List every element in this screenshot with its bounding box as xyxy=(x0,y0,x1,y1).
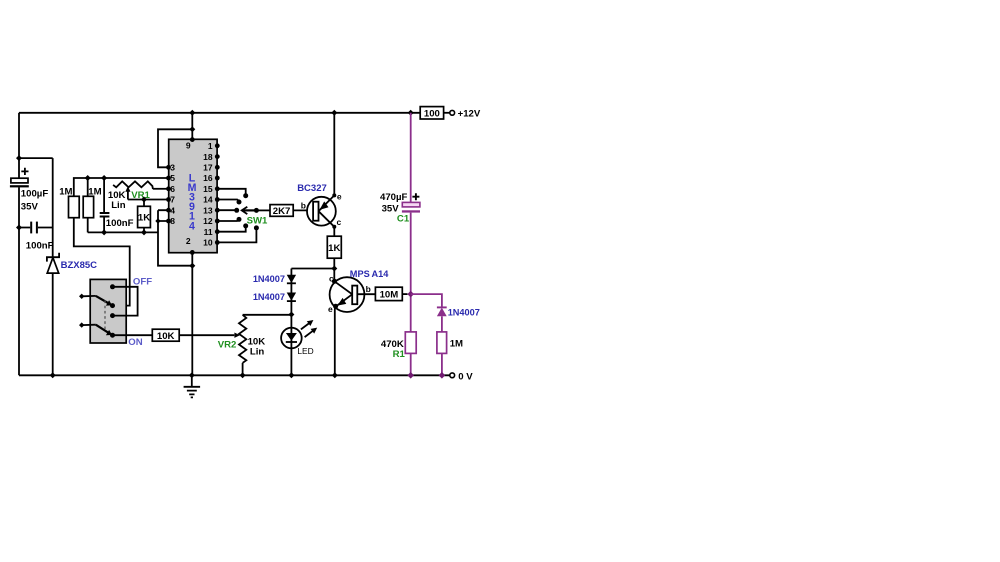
svg-text:13: 13 xyxy=(203,205,213,215)
svg-text:0 V: 0 V xyxy=(458,371,473,382)
wire zener branch horizontal xyxy=(19,157,53,159)
junction bottom rail / zener xyxy=(50,372,56,378)
wire ON contact to 10K xyxy=(113,334,153,336)
resistor 1M purple xyxy=(437,332,463,354)
svg-text:1K: 1K xyxy=(328,243,340,254)
svg-text:4: 4 xyxy=(189,220,195,232)
wire pin 9 from top rail xyxy=(191,113,193,140)
svg-text:MPS A14: MPS A14 xyxy=(350,269,389,279)
switch lever upper xyxy=(96,296,112,306)
svg-text:LED: LED xyxy=(297,346,313,356)
LED arrow upper xyxy=(301,320,314,329)
resistor 2K7 xyxy=(270,205,293,217)
wire 1M second bottom xyxy=(87,218,89,233)
svg-text:2: 2 xyxy=(186,236,191,246)
node BC327 collector bend xyxy=(332,225,336,229)
svg-text:10: 10 xyxy=(203,238,213,248)
pin 16 stub xyxy=(203,173,220,183)
svg-text:35V: 35V xyxy=(21,201,39,212)
switch contact lower unused xyxy=(110,313,115,318)
svg-text:15: 15 xyxy=(203,184,213,194)
svg-text:4: 4 xyxy=(170,205,175,215)
svg-text:b: b xyxy=(366,284,371,294)
svg-text:VR2: VR2 xyxy=(218,340,237,351)
switch contact upper pole xyxy=(110,303,115,308)
junction bottom rail / VR2 xyxy=(240,372,246,378)
svg-text:11: 11 xyxy=(204,227,213,237)
switch SW1 selector arrow xyxy=(242,207,255,214)
node selector contact 13 xyxy=(234,208,239,213)
svg-text:1N4007: 1N4007 xyxy=(253,274,285,284)
pin 13 stub xyxy=(203,205,220,215)
node selector contact 15 xyxy=(243,193,248,198)
node MPSA14 emitter xyxy=(333,304,338,309)
pin 1 stub xyxy=(208,141,220,151)
wire BC327 emitter to top rail xyxy=(333,113,335,196)
svg-text:1M: 1M xyxy=(450,338,463,349)
pin 4 stub xyxy=(166,205,175,215)
wire left vertical upper xyxy=(18,113,20,178)
svg-text:100: 100 xyxy=(424,108,440,119)
pin 8 stub xyxy=(166,216,175,226)
svg-text:Lin: Lin xyxy=(111,200,126,211)
resistor 1M first xyxy=(59,187,79,218)
node BC327 emitter bend xyxy=(332,193,336,197)
wire 100 to +12V terminal xyxy=(444,112,450,114)
diode D2 1N4007 xyxy=(253,292,296,302)
wire pin11 to selector contact xyxy=(218,228,246,232)
svg-text:2K7: 2K7 xyxy=(273,206,291,217)
capacitor 100nF second xyxy=(100,178,134,232)
LED arrow lower xyxy=(305,328,318,338)
wire purple 470K to rail xyxy=(410,353,412,375)
junction pin2 wire / pin4 pin8 net xyxy=(189,263,195,269)
junction pin5 net / 100nF xyxy=(101,175,107,181)
resistor R1 470K purple xyxy=(381,332,416,360)
node selector contact 12 xyxy=(237,217,242,222)
svg-text:BC327: BC327 xyxy=(297,183,327,194)
pin 11 stub xyxy=(204,227,220,237)
svg-text:Lin: Lin xyxy=(250,346,265,357)
transistor Q2 MPSA14 xyxy=(328,269,389,314)
junction ground net / 100nF second xyxy=(101,229,107,235)
resistor 1M second xyxy=(83,187,101,218)
node selector contact 14 xyxy=(237,200,242,205)
diode D1 1N4007 xyxy=(253,274,296,284)
junction diode chain / VR2 top xyxy=(288,312,294,318)
potentiometer VR1 10K Lin xyxy=(108,181,168,210)
pin 6 stub xyxy=(166,184,175,194)
wire purple C1 net lower xyxy=(410,213,412,332)
switch lever lower xyxy=(96,325,112,336)
wire purple diode to 1M xyxy=(441,316,443,332)
wire pivot to 2K7 xyxy=(256,209,270,211)
svg-text:100µF: 100µF xyxy=(21,189,49,200)
switch gang dashed link xyxy=(104,301,106,330)
svg-text:5: 5 xyxy=(170,173,175,183)
node 0V terminal xyxy=(450,371,473,382)
svg-text:9: 9 xyxy=(186,141,191,151)
svg-text:b: b xyxy=(301,201,306,211)
wire MPSA14 base to 10M xyxy=(357,293,375,295)
svg-text:R1: R1 xyxy=(393,349,406,360)
wire BC327 collector to 1K xyxy=(333,227,335,236)
wire pin 2 to bottom rail xyxy=(191,253,193,376)
junction left vertical / 100nF xyxy=(16,225,22,231)
svg-text:10K: 10K xyxy=(157,331,175,342)
node selector contact 11 xyxy=(243,223,248,228)
wire pins 4 8 ground net horizontal xyxy=(88,231,158,233)
junction pin5 net / 1M second xyxy=(85,175,91,181)
wire VR2 top to LED net xyxy=(243,314,292,316)
svg-text:16: 16 xyxy=(203,173,213,183)
wire pin14 to selector contact xyxy=(218,200,239,201)
wire pin12 to selector contact xyxy=(218,220,239,221)
junction purple rail 1M xyxy=(439,372,446,379)
svg-text:SW1: SW1 xyxy=(247,215,268,226)
node selector contact 10 xyxy=(254,225,259,230)
junction diode chain top xyxy=(331,266,337,272)
zener diode BZX85C xyxy=(47,253,97,273)
svg-text:470K: 470K xyxy=(381,339,404,350)
junction pin7 net / 1K xyxy=(141,197,147,203)
wire 1M first bottom to switch xyxy=(74,218,130,306)
svg-text:ON: ON xyxy=(128,337,142,348)
pin 10 stub xyxy=(203,238,220,248)
wire OFF loop xyxy=(113,287,138,316)
wire 0V bottom rail xyxy=(19,374,450,376)
op-amp U1 LM3914 body xyxy=(169,139,217,252)
svg-text:7: 7 xyxy=(170,195,175,205)
resistor 10K switch xyxy=(152,329,179,342)
pin 17 stub xyxy=(203,163,220,173)
svg-text:e: e xyxy=(337,191,342,201)
wire zener branch vertical xyxy=(52,158,54,257)
wire pin15 to selector contact xyxy=(218,189,246,194)
pin 7 stub xyxy=(166,195,175,205)
svg-text:BZX85C: BZX85C xyxy=(61,260,98,271)
svg-text:14: 14 xyxy=(203,195,213,205)
junction bottom rail / MPSA14 emitter xyxy=(332,372,338,378)
svg-text:1M: 1M xyxy=(88,187,101,198)
svg-text:c: c xyxy=(337,217,342,227)
LED xyxy=(281,328,314,356)
junction left vertical / zener branch xyxy=(16,155,22,161)
svg-text:470µF: 470µF xyxy=(380,192,408,203)
switch left pin upper xyxy=(79,294,96,299)
wire MPSA14 emitter to rail xyxy=(334,306,337,375)
resistor 10M xyxy=(375,287,402,300)
resistor 100 xyxy=(420,107,443,120)
switch left pin lower xyxy=(79,322,96,327)
transistor Q1 BC327 xyxy=(297,183,342,227)
svg-text:1N4007: 1N4007 xyxy=(253,292,285,302)
node pin2 stub dot xyxy=(190,250,195,255)
wire pin5 net horizontal xyxy=(74,178,169,196)
wire pin13 to selector arrow xyxy=(218,209,237,211)
junction purple rail 470K xyxy=(407,372,414,379)
svg-text:3: 3 xyxy=(170,163,175,173)
pin 14 stub xyxy=(203,195,220,205)
switch contact ON bottom xyxy=(110,333,115,338)
node +12V terminal xyxy=(450,108,481,119)
svg-text:+12V: +12V xyxy=(458,108,481,119)
switch DPDT body xyxy=(90,279,126,343)
svg-text:C1: C1 xyxy=(397,213,410,224)
wire zener to bottom rail xyxy=(52,273,54,375)
junction top rail / C1 xyxy=(408,110,414,116)
junction ground net / 1K xyxy=(141,229,147,235)
pin 5 stub xyxy=(166,173,175,183)
node SW1 pivot xyxy=(254,208,259,213)
svg-text:e: e xyxy=(328,304,333,314)
IC name LM3914 vertical xyxy=(188,172,197,232)
node pin9 stub dot xyxy=(190,137,195,142)
svg-text:8: 8 xyxy=(170,216,175,226)
pin 12 stub xyxy=(203,216,220,226)
junction purple 10M node xyxy=(407,291,414,298)
svg-text:100nF: 100nF xyxy=(26,240,54,251)
svg-text:12: 12 xyxy=(203,216,213,226)
svg-text:10M: 10M xyxy=(380,290,399,301)
wire left vertical lower xyxy=(18,187,20,375)
capacitor 100nF left xyxy=(19,222,54,252)
wire LED to bottom rail xyxy=(290,348,292,375)
wire purple branch to diode xyxy=(411,294,442,307)
junction pin9 wire / pin3 link xyxy=(189,126,195,132)
junction bottom rail / LED xyxy=(288,372,294,378)
wire VR2 bottom to rail xyxy=(242,363,244,375)
wire 10M to purple junction xyxy=(402,293,407,295)
junction top rail / BC327 emitter xyxy=(331,110,337,116)
wire +12V top rail xyxy=(19,112,420,114)
pin 3 stub xyxy=(166,163,175,173)
wire 10K to VR2 wiper xyxy=(179,334,234,336)
wire diode chain top xyxy=(291,268,334,270)
pin 18 stub xyxy=(203,152,220,162)
resistor 1K collector xyxy=(327,236,341,258)
wire 2K7 to BC327 base xyxy=(293,209,313,211)
wire pin10 to selector contact xyxy=(218,230,257,243)
ground xyxy=(184,375,201,397)
svg-text:1: 1 xyxy=(208,141,213,151)
capacitor 100uF 35V xyxy=(10,168,48,213)
resistor 1K near VR1 xyxy=(138,200,151,233)
capacitor C1 470uF 35V xyxy=(380,192,420,224)
junction top rail / IC pin 9 xyxy=(189,110,195,116)
potentiometer VR2 10K Lin xyxy=(218,315,266,363)
svg-text:6: 6 xyxy=(170,184,175,194)
switch contact OFF top xyxy=(110,284,115,289)
wire 1K to MPSA14 collector xyxy=(333,258,335,281)
wire pin 3 link xyxy=(158,129,192,167)
diode D3 1N4007 purple xyxy=(437,307,480,317)
svg-text:1M: 1M xyxy=(59,187,72,198)
svg-text:1K: 1K xyxy=(138,213,150,224)
wire 1M second top xyxy=(87,178,89,196)
wire pin4 pin8 drop xyxy=(158,210,168,221)
pin 15 stub xyxy=(203,184,220,194)
svg-text:18: 18 xyxy=(203,152,213,162)
wire purple C1 net upper xyxy=(410,113,412,203)
svg-text:OFF: OFF xyxy=(133,276,152,287)
svg-text:17: 17 xyxy=(203,163,213,173)
svg-text:1N4007: 1N4007 xyxy=(448,308,480,318)
junction bottom rail / ground pin2 xyxy=(189,372,195,378)
wire purple 1M to rail xyxy=(441,353,443,375)
wire diode chain vertical xyxy=(290,269,292,328)
node MPSA14 collector xyxy=(332,279,337,284)
svg-text:100nF: 100nF xyxy=(106,218,134,229)
wire pin7 net xyxy=(128,199,168,201)
